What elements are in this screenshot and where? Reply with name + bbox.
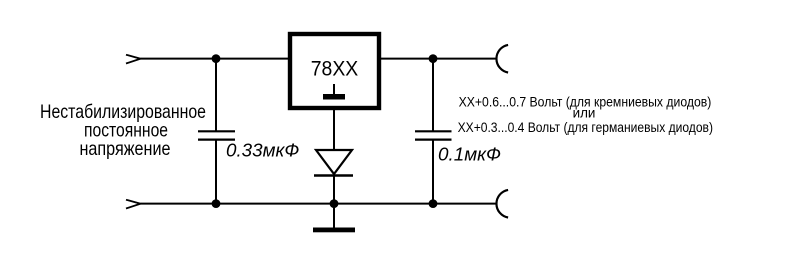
wire C2 bottom lead [432,140,434,204]
node junction top C1 [212,54,221,63]
ground symbol [313,228,355,233]
svg-text:0.33мкФ: 0.33мкФ [226,140,299,161]
node junction bottom C1 [212,199,221,208]
wire diode to bottom rail [333,176,335,204]
svg-text:0.1мкФ: 0.1мкФ [438,144,501,165]
wire top rail: input to regulator [141,58,291,60]
node junction bottom diode/ground [330,199,339,208]
svg-text:напряжение: напряжение [80,138,171,160]
capacitor C2 plates [415,131,452,139]
capacitor C1 plates [198,131,235,139]
node junction top C2 [429,54,438,63]
svg-text:XX+0.3...0.4 Вольт (для герман: XX+0.3...0.4 Вольт (для германиевых диод… [458,120,713,135]
wire ground lead [333,204,335,228]
wire top rail: regulator to output [379,58,497,60]
input terminal top (arrow) [126,55,141,64]
diode VD1 [314,150,353,176]
wire regulator ground pin to diode [333,108,335,150]
regulator U1 78XX box [290,34,379,108]
wire bottom rail [141,203,497,205]
node junction bottom C2 [429,199,438,208]
wire C2 top lead [432,59,434,132]
output terminal top (socket arc) [496,45,508,73]
ground pin symbol inside regulator [323,84,345,100]
wire C1 top lead [215,59,217,132]
input terminal bottom (arrow) [126,200,141,209]
svg-text:или: или [573,106,596,121]
wire C1 bottom lead [215,140,217,204]
output terminal bottom (socket arc) [496,190,508,218]
svg-text:78XX: 78XX [311,57,359,81]
